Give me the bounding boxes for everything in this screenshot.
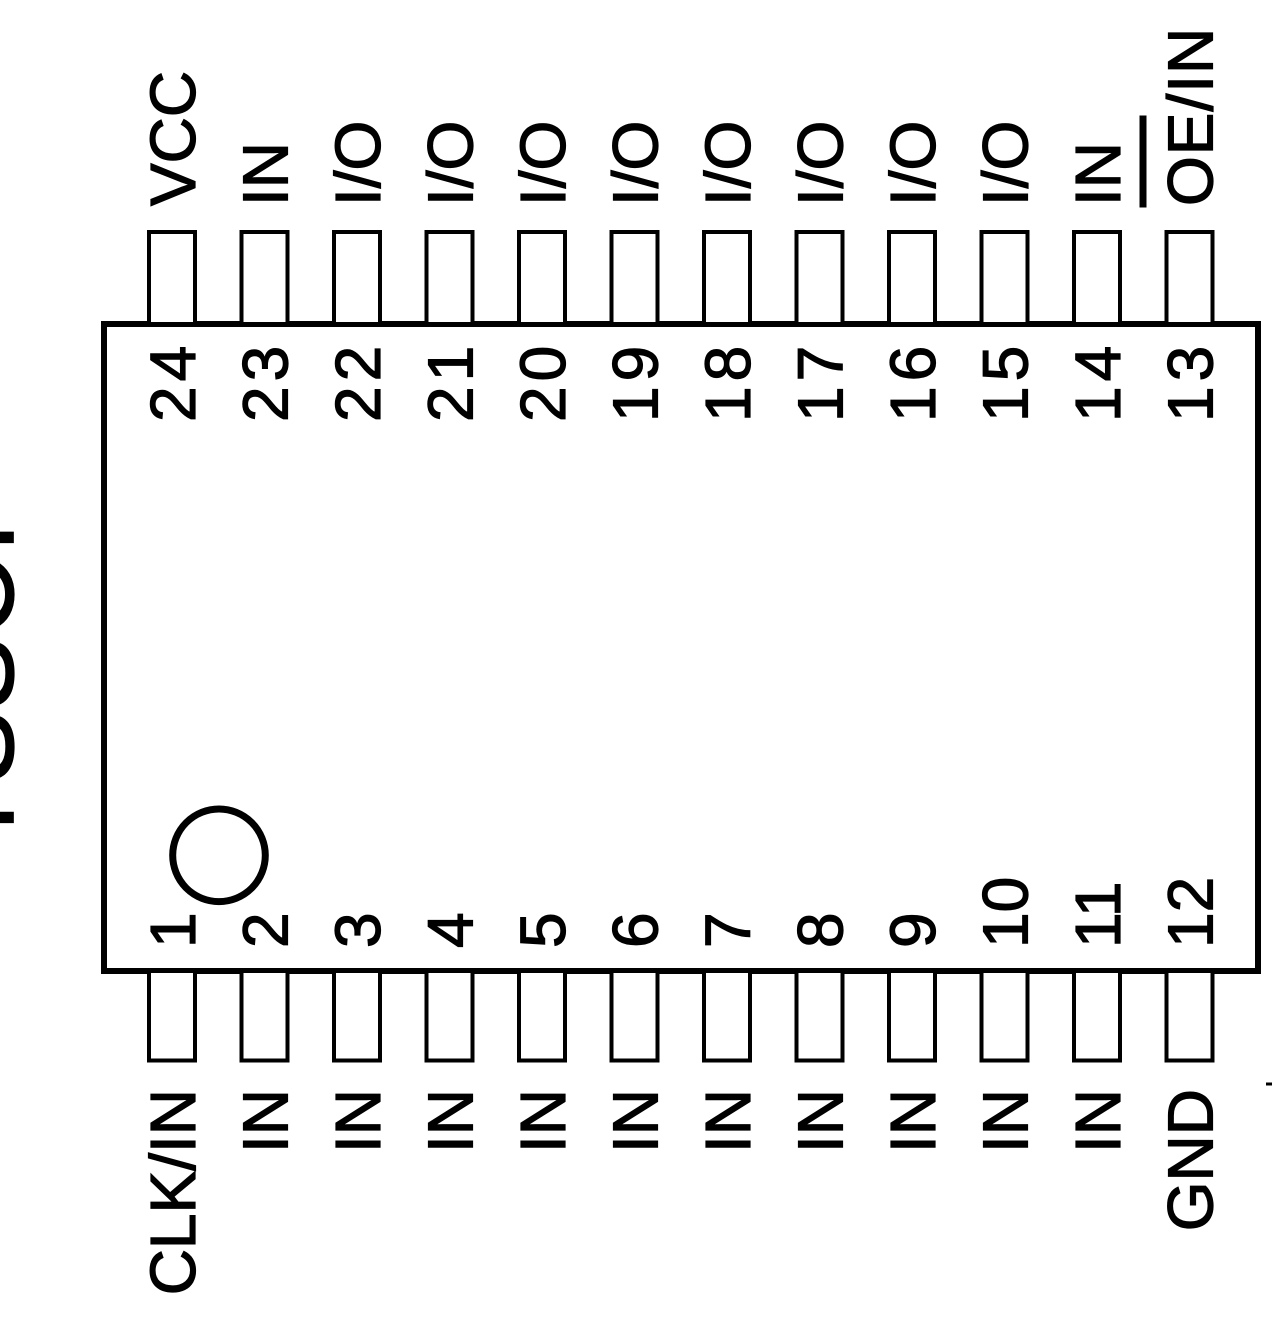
pin 3 lead xyxy=(334,971,380,1061)
pin 14 lead xyxy=(1074,232,1120,324)
pin 15 lead xyxy=(982,232,1028,324)
svg-text:I/O: I/O xyxy=(970,121,1042,206)
pin 2 lead xyxy=(242,971,288,1061)
svg-text:I/O: I/O xyxy=(600,121,672,206)
svg-text:IN: IN xyxy=(1062,142,1134,206)
svg-text:IN: IN xyxy=(970,1089,1042,1153)
svg-text:1: 1 xyxy=(137,912,209,948)
pin 18 lead xyxy=(704,232,750,324)
svg-text:IN: IN xyxy=(322,1089,394,1153)
pin 24 lead xyxy=(149,232,195,324)
svg-text:13: 13 xyxy=(1155,341,1227,422)
svg-text:IN: IN xyxy=(415,1089,487,1153)
svg-text:8: 8 xyxy=(785,912,857,948)
svg-text:IN: IN xyxy=(692,1089,764,1153)
pin 21 lead xyxy=(427,232,473,324)
svg-text:17: 17 xyxy=(785,341,857,422)
svg-text:20: 20 xyxy=(507,341,579,422)
svg-text:GND: GND xyxy=(1155,1089,1227,1231)
svg-text:4: 4 xyxy=(415,912,487,948)
svg-text:I/O: I/O xyxy=(507,121,579,206)
svg-text:6: 6 xyxy=(600,912,672,948)
svg-text:14: 14 xyxy=(1062,341,1134,422)
svg-text:3: 3 xyxy=(322,912,394,948)
svg-text:18: 18 xyxy=(692,341,764,422)
pin 4 lead xyxy=(427,971,473,1061)
svg-text:15: 15 xyxy=(970,341,1042,422)
svg-text:IN: IN xyxy=(1062,1089,1134,1153)
svg-text:19: 19 xyxy=(600,341,672,422)
pin 23 lead xyxy=(242,232,288,324)
svg-text:10: 10 xyxy=(970,877,1042,948)
pin 20 lead xyxy=(519,232,565,324)
svg-text:CLK/IN: CLK/IN xyxy=(137,1089,209,1295)
pin 8 lead xyxy=(797,971,843,1061)
svg-text:IN: IN xyxy=(785,1089,857,1153)
tick mark at right page edge xyxy=(1266,1083,1272,1086)
svg-text:OE/IN: OE/IN xyxy=(1155,27,1227,206)
svg-text:IN: IN xyxy=(600,1089,672,1153)
overline over OE of pin 13 label xyxy=(1140,116,1147,208)
svg-text:IN: IN xyxy=(230,142,302,206)
pin 5 lead xyxy=(519,971,565,1061)
pin 9 lead xyxy=(889,971,935,1061)
pin 13 lead xyxy=(1167,232,1213,324)
svg-text:22: 22 xyxy=(322,341,394,422)
svg-text:21: 21 xyxy=(415,341,487,422)
svg-text:11: 11 xyxy=(1062,882,1134,948)
svg-text:2: 2 xyxy=(230,912,302,948)
svg-text:23: 23 xyxy=(230,341,302,422)
svg-text:I/O: I/O xyxy=(692,121,764,206)
pin 16 lead xyxy=(889,232,935,324)
pin 1 lead xyxy=(149,971,195,1061)
svg-text:12: 12 xyxy=(1155,877,1227,948)
svg-text:I/O: I/O xyxy=(415,121,487,206)
svg-text:I/O: I/O xyxy=(322,121,394,206)
pin 10 lead xyxy=(982,971,1028,1061)
pin 19 lead xyxy=(612,232,658,324)
svg-text:9: 9 xyxy=(877,912,949,948)
svg-text:IN: IN xyxy=(507,1089,579,1153)
svg-text:TSSOP: TSSOP xyxy=(0,478,37,851)
pin 12 lead xyxy=(1167,971,1213,1061)
svg-text:24: 24 xyxy=(137,341,209,422)
svg-text:IN: IN xyxy=(877,1089,949,1153)
IC body U1 xyxy=(104,324,1258,971)
svg-text:7: 7 xyxy=(692,912,764,948)
pin 1 indicator dot xyxy=(173,809,266,902)
pin 17 lead xyxy=(797,232,843,324)
svg-text:16: 16 xyxy=(877,341,949,422)
pin 22 lead xyxy=(334,232,380,324)
svg-text:I/O: I/O xyxy=(877,121,949,206)
pin 7 lead xyxy=(704,971,750,1061)
pin 6 lead xyxy=(612,971,658,1061)
pin 11 lead xyxy=(1074,971,1120,1061)
svg-text:IN: IN xyxy=(230,1089,302,1153)
svg-text:5: 5 xyxy=(507,912,579,948)
svg-text:I/O: I/O xyxy=(785,121,857,206)
svg-text:VCC: VCC xyxy=(137,71,209,206)
